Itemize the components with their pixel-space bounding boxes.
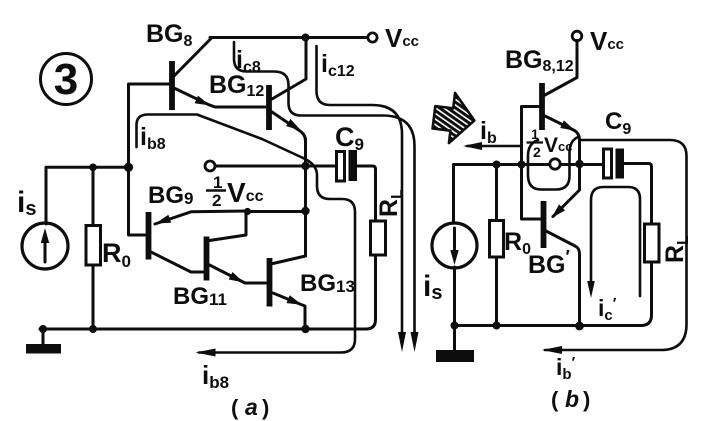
wire: output vertical (BG12 emitter to BG13 collector) <box>304 139 307 256</box>
ground (b) <box>436 326 474 363</box>
bottom rail (a) with corner up to RL <box>40 255 376 329</box>
annotation current ic' loop (b) <box>591 187 640 296</box>
transistor BG12 <box>269 38 306 142</box>
node circle 1/2 Vcc (b) <box>550 159 560 169</box>
svg-text:3: 3 <box>54 55 78 104</box>
label 1/2 Vcc (b) <box>527 126 573 160</box>
junction base feed / input rail <box>124 163 133 172</box>
transistor BG9 <box>149 211 248 272</box>
wire: cap to RL (b) <box>624 164 652 225</box>
svg-text:(: ( <box>551 387 559 412</box>
current source is (b) <box>432 223 477 326</box>
junction emitter node (b) <box>575 160 583 168</box>
resistor R0 (a) <box>86 167 101 329</box>
big hatched arrow symbol <box>431 91 477 146</box>
junction R0 top (b) <box>493 161 501 169</box>
node circle 1/2 Vcc (a) <box>205 161 215 171</box>
capacitor C9 (a) <box>337 150 358 181</box>
terminal Vcc (a) <box>368 33 377 42</box>
wire: input top rail (a) <box>46 167 129 224</box>
svg-text:BG′: BG′ <box>528 247 570 279</box>
svg-text:b: b <box>565 386 579 412</box>
arrowhead ic8 down <box>411 332 419 352</box>
transistor BG8 <box>172 39 266 111</box>
junction base line (b) <box>518 161 526 169</box>
junction dots bottom rail (b) <box>451 322 459 330</box>
ground (a) <box>26 329 61 354</box>
resistor RL (a) <box>371 221 386 255</box>
transistor BG11 <box>207 211 267 283</box>
annotation current ic8 loop <box>234 42 415 333</box>
svg-text:2: 2 <box>212 191 221 210</box>
bottom rail (b) with corner up to RL <box>455 263 652 326</box>
arrowhead ic12 down <box>398 332 406 352</box>
svg-text:): ) <box>262 395 269 420</box>
junction mid rail right <box>301 207 309 215</box>
transistor BG13 <box>270 256 306 329</box>
wire: output node line (a) <box>215 165 337 168</box>
junction output node (a) <box>301 162 309 170</box>
terminal Vcc (b) <box>572 31 582 41</box>
wire: node line (b) with corner down to source <box>454 165 605 224</box>
current source is (a) <box>22 223 68 269</box>
wire: cap to RL (a) <box>357 166 376 221</box>
wire: BG8 base feed down to BG9 base <box>129 84 170 235</box>
resistor RL (b) <box>645 224 660 262</box>
svg-text:1: 1 <box>213 173 222 192</box>
arrowhead ib' left <box>542 346 562 354</box>
svg-text:): ) <box>583 387 590 412</box>
annotation current ic12 loop <box>317 46 403 333</box>
junction dots on bottom rail (a) <box>39 325 47 333</box>
capacitor C9 (b) <box>604 149 625 179</box>
annotation arrow ib (b) <box>467 145 521 148</box>
wire: mid rail to output vertical (a) <box>248 210 306 213</box>
wire: base of composite (b) <box>522 107 541 220</box>
transistor BG' (b) <box>544 164 580 327</box>
label 1/2 Vcc (a) <box>206 173 264 210</box>
transistor BG8,12 (b) <box>542 41 580 165</box>
svg-text:1: 1 <box>531 126 539 142</box>
svg-text:(: ( <box>231 395 239 420</box>
arrowhead ib8 left <box>196 349 216 357</box>
arrowhead ic' down <box>587 281 595 298</box>
annotation current ib8 loop <box>137 115 356 353</box>
svg-text:a: a <box>245 394 258 420</box>
resistor R0 (b) <box>490 165 504 326</box>
figure number 3 (circle badge) <box>41 54 92 105</box>
annotation current ib' loop (b) <box>545 140 687 350</box>
junction on top rail (a) <box>302 34 310 42</box>
composite transistor outline blob <box>528 138 577 190</box>
junction R0 top (a) <box>89 164 97 172</box>
wire: Vcc top rail (a) <box>210 36 367 39</box>
svg-text:2: 2 <box>533 144 541 160</box>
junction BG9/BG11 node <box>244 208 251 215</box>
